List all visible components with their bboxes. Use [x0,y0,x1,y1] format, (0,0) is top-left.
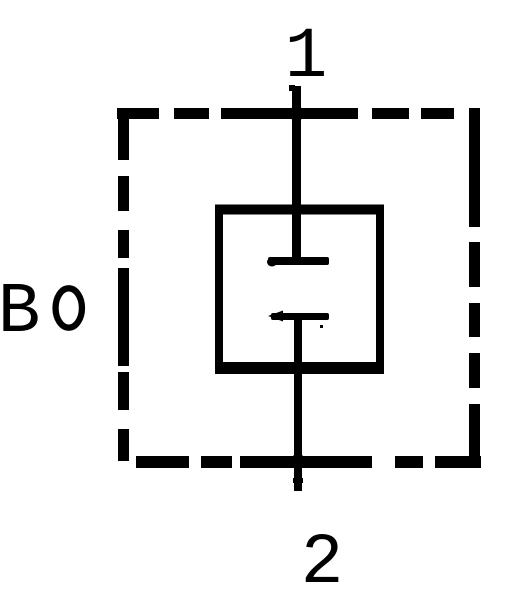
battery plate bottom [268,311,329,322]
reference designator B0 [0,273,82,353]
battery plate top [267,257,329,267]
pin label 2 [301,524,344,600]
stray scan dot [320,325,323,328]
dashed outline bottom edge [136,456,481,468]
dashed outline right edge [469,108,480,467]
dashed outline top edge [117,108,454,119]
svg-text:B: B [0,273,40,353]
svg-text:2: 2 [301,524,344,600]
wire pin 1 lead [289,85,304,261]
battery B0 inner rectangle [215,205,384,375]
pin label 1 [285,18,328,98]
dashed outline left edge [118,109,129,461]
wire pin 2 lead [291,316,305,491]
